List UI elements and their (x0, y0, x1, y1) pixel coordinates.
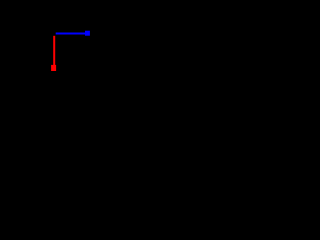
red vector arrow shaft (53, 36, 55, 66)
background (0, 0, 160, 120)
blue vector arrowhead (85, 31, 90, 36)
red vector arrowhead (51, 65, 56, 71)
blue vector arrow shaft (56, 33, 86, 35)
